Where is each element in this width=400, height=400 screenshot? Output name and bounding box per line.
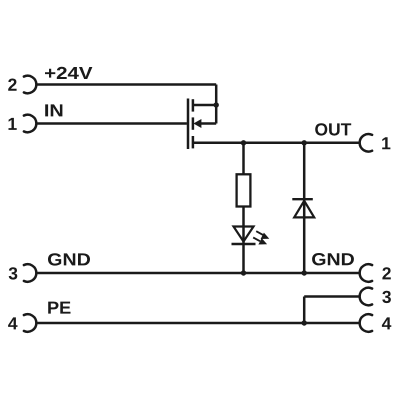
label GND right	[312, 253, 354, 265]
junction dot GND-LED	[241, 270, 246, 275]
pin number 4 right	[382, 317, 391, 329]
transistor Q1 bulk arrow	[193, 119, 201, 128]
wire pin 3 right vertical to PE	[303, 297, 306, 324]
wire diode branch	[303, 143, 306, 273]
junction dot OUT-diode	[302, 140, 307, 145]
wire IN to gate	[36, 122, 187, 125]
label PE	[48, 302, 70, 314]
wire resistor branch lower through LED	[242, 206, 245, 274]
label GND left	[48, 253, 90, 265]
pin number 2 left	[8, 79, 16, 91]
transistor Q1 channel segment middle	[192, 117, 195, 129]
pin number 1 right	[382, 137, 390, 149]
diode V1 cathode bar	[292, 198, 313, 200]
LED D1 triangle	[234, 227, 254, 242]
wire +24V vertical drop	[215, 85, 218, 124]
pin 2 left connector	[24, 76, 36, 94]
wire GND horizontal	[36, 272, 359, 275]
resistor R1	[237, 174, 251, 206]
transistor Q1 drain lead	[193, 104, 216, 107]
transistor Q1 channel segment top	[192, 99, 195, 111]
pin 1 left connector	[24, 115, 36, 133]
pin 3 right connector	[360, 288, 372, 306]
pin number 1 left	[9, 118, 17, 130]
LED D1 light arrow upper	[256, 231, 269, 239]
pin 1 right connector	[360, 134, 372, 151]
pin number 2 right	[382, 267, 390, 279]
pin number 4 left	[8, 317, 17, 329]
junction dot OUT-resistor	[241, 140, 246, 145]
pin 3 left connector	[24, 264, 36, 282]
LED D1 cathode bar	[232, 243, 256, 245]
pin number 3 right	[382, 291, 391, 303]
wire OUT from source to pin 1	[193, 142, 360, 145]
LED D1 light arrow lower	[253, 238, 267, 245]
label +24V	[45, 67, 92, 79]
pin 4 left connector	[24, 314, 36, 332]
pin number 3 left	[9, 267, 18, 279]
transistor Q1 gate line	[187, 99, 190, 150]
wire resistor branch upper	[242, 143, 245, 175]
junction dot drain node	[214, 102, 219, 107]
label IN	[45, 104, 62, 116]
label OUT	[315, 123, 351, 135]
wire pin 3 right horizontal	[304, 295, 359, 298]
transistor Q1 channel segment bottom	[192, 136, 195, 148]
pin 2 right connector	[360, 264, 372, 282]
junction dot PE-pin3	[302, 320, 307, 325]
pin 4 right connector	[360, 314, 372, 331]
wire +24V horizontal	[36, 83, 216, 86]
wire PE horizontal	[36, 322, 359, 325]
diode V1 triangle	[294, 201, 314, 218]
junction dot GND-diode	[302, 270, 307, 275]
transistor Q1 bulk lead	[199, 122, 216, 125]
